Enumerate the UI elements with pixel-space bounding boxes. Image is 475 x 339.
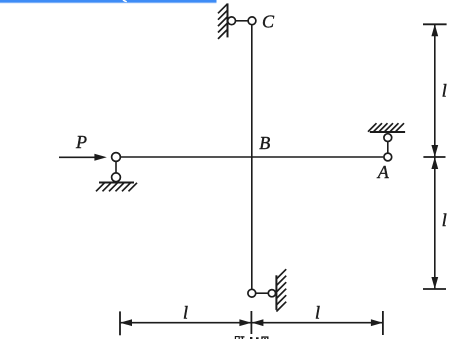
dimension bottom: middle tick	[250, 311, 252, 334]
caption (clipped at page bottom): top edges of Chinese characters	[235, 336, 269, 339]
dimension right: top tick	[423, 23, 447, 25]
pin circle C	[248, 17, 256, 25]
svg-text:P: P	[75, 132, 87, 152]
member BC-bottom (vertical member)	[251, 25, 253, 290]
svg-text:C: C	[262, 12, 275, 32]
wall at bottom support	[275, 275, 277, 310]
svg-text:l: l	[442, 80, 447, 100]
wall at C	[227, 3, 229, 37]
hatching at A ceiling	[368, 123, 404, 132]
link bar left support	[115, 161, 117, 173]
dimension bottom: left segment line	[120, 322, 251, 324]
dimension right: bottom tick	[423, 288, 446, 290]
svg-text:A: A	[377, 162, 390, 182]
bottom pin circle right	[268, 290, 275, 297]
dimension bottom: right tick	[382, 311, 384, 335]
white notch on blue bar	[123, 0, 128, 2]
force P arrow	[59, 154, 107, 161]
pin circle A upper	[384, 134, 392, 142]
hatching left ground	[96, 183, 137, 192]
arrow down to middle tick	[431, 145, 438, 157]
ground line left support	[99, 182, 134, 184]
hatching bottom wall	[276, 269, 286, 311]
arrow right at right tick	[371, 319, 383, 326]
arrow up to middle tick	[431, 157, 438, 169]
arrow up at top tick	[431, 24, 438, 36]
dimension bottom: right segment line	[251, 322, 383, 324]
svg-text:l: l	[315, 303, 320, 323]
pin circle on wall at C	[228, 17, 236, 25]
dimension right: upper segment line	[434, 24, 436, 157]
svg-text:B: B	[259, 133, 270, 153]
dimension bottom: left tick	[119, 311, 121, 335]
bottom pin circle left	[248, 289, 256, 297]
link bar at A	[387, 142, 389, 154]
hatching at C wall	[218, 4, 228, 39]
svg-text:l: l	[442, 210, 447, 230]
pin circle A lower	[384, 153, 392, 161]
arrow left to middle tick	[251, 319, 263, 326]
link bar at C	[236, 20, 249, 22]
arrow right to middle tick	[239, 319, 251, 326]
dimension right: lower segment line	[434, 157, 436, 289]
selection highlight bar (blue)	[0, 0, 217, 3]
member at B (horizontal member)	[121, 156, 384, 158]
dimension right: middle tick	[423, 156, 445, 158]
arrow left at left tick	[120, 319, 132, 326]
bottom link bar	[256, 292, 268, 294]
arrow down at bottom tick	[431, 277, 438, 289]
svg-text:l: l	[183, 303, 188, 323]
pin circle left upper	[112, 153, 121, 162]
ceiling line at A	[370, 131, 405, 133]
pin circle left lower	[112, 173, 121, 182]
